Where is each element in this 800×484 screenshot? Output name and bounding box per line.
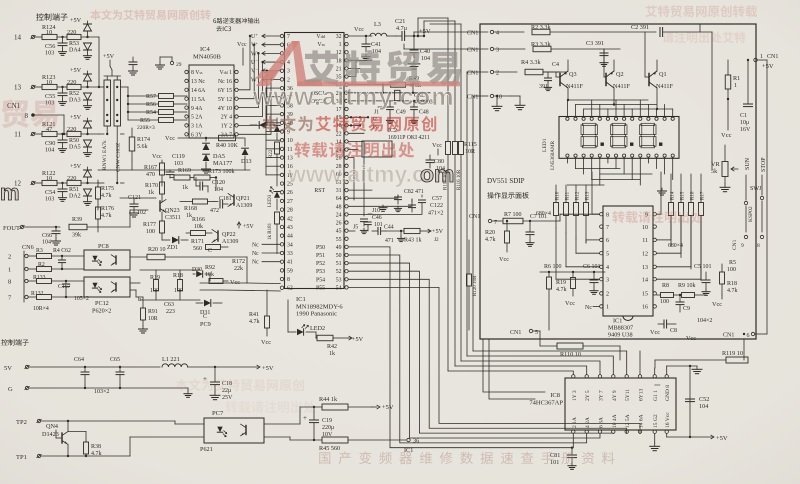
svg-text:14: 14 <box>14 34 22 42</box>
resistor R1 1 <box>725 60 740 130</box>
svg-text:R174: R174 <box>137 137 150 143</box>
svg-text:R7 100: R7 100 <box>504 212 522 218</box>
svg-text:8: 8 <box>757 243 760 249</box>
resistor R22 <box>269 142 280 170</box>
capacitor C6 101 <box>583 264 601 294</box>
wires R10-13 to MB88307 left pins <box>556 228 600 279</box>
svg-text:R42: R42 <box>327 344 337 350</box>
IC U-IC1 MN18982MDY-6 (64pin) <box>280 33 348 318</box>
wire column x277 <box>276 170 278 186</box>
svg-text:R18: R18 <box>727 281 737 287</box>
resistor R56 <box>128 102 187 109</box>
svg-text:R52: R52 <box>69 91 79 97</box>
capacitor C119 103 <box>166 154 185 178</box>
capacitor C9 <box>676 294 690 312</box>
capacitor C19 220u 10V <box>303 406 334 441</box>
svg-text:4.7k: 4.7k <box>556 287 567 293</box>
connector CN1 pin 4 <box>414 30 524 36</box>
svg-text:1Y 2: 1Y 2 <box>221 124 232 130</box>
svg-text:223: 223 <box>166 309 175 315</box>
svg-text:D13: D13 <box>241 158 252 165</box>
svg-text:P51: P51 <box>316 253 325 259</box>
svg-text:471×2: 471×2 <box>428 211 443 217</box>
resistor R15 680 <box>679 174 686 258</box>
label Vcc R20 <box>499 256 509 263</box>
resistor R7 100 <box>503 212 600 224</box>
svg-text:31: 31 <box>336 188 342 194</box>
svg-text:CN1: CN1 <box>723 333 734 339</box>
svg-text:32: 32 <box>336 34 342 40</box>
svg-text:1: 1 <box>8 267 11 274</box>
svg-text:18: 18 <box>336 58 342 64</box>
svg-text:49: 49 <box>336 245 342 251</box>
svg-text:N411F: N411F <box>656 83 674 90</box>
label 680x4 left <box>536 211 551 217</box>
wire +5V to network columns <box>103 53 121 80</box>
switch SUN <box>744 157 751 232</box>
svg-text:29: 29 <box>176 62 182 68</box>
resistor R12 680 <box>574 185 581 238</box>
resistor R169 1k <box>170 168 194 191</box>
svg-text:+5V: +5V <box>716 435 728 442</box>
svg-text:C4: C4 <box>552 62 559 68</box>
svg-text:C21: C21 <box>395 18 405 25</box>
svg-text:R51: R51 <box>69 187 79 193</box>
svg-text:4Y 9: 4Y 9 <box>612 390 618 401</box>
svg-text:Vcc: Vcc <box>165 135 175 142</box>
display LED1 LN5360AMR 7-segment x3 <box>542 117 679 171</box>
svg-text:MA177: MA177 <box>213 160 232 167</box>
svg-text:52: 52 <box>336 269 342 275</box>
wire right pin stubs of IC1 <box>349 60 423 214</box>
svg-text:+5V: +5V <box>70 17 82 24</box>
svg-text:R54: R54 <box>146 110 156 116</box>
svg-text:R167: R167 <box>144 165 157 171</box>
svg-text:Vcc: Vcc <box>650 329 660 336</box>
label C QP22 <box>208 248 212 254</box>
resistor R121 47 <box>42 121 67 137</box>
svg-text:1Y 3: 1Y 3 <box>572 390 578 401</box>
jumper J1 <box>374 107 382 116</box>
svg-text:6: 6 <box>747 333 750 339</box>
wires MB88307 pins 8 and 9 upward <box>592 172 661 214</box>
resistor R168 1k <box>180 199 214 219</box>
watermark ghost www.aitmy.com <box>287 161 455 187</box>
capacitor C122 471x2 <box>409 199 444 217</box>
svg-text:Vcc: Vcc <box>230 279 240 286</box>
resistor R13 680 <box>584 185 591 243</box>
resistor R2 3.3k <box>531 24 656 35</box>
jumper J2 J3 rows <box>349 116 378 130</box>
svg-text:10 4A: 10 4A <box>612 414 618 428</box>
capacitor C54 103 <box>45 183 67 203</box>
svg-text:Q2: Q2 <box>616 71 624 78</box>
resistor R167 470 <box>144 160 165 186</box>
inductor L3 <box>370 21 396 36</box>
resistor R4 3.3k <box>521 59 560 75</box>
svg-text:P621: P621 <box>200 446 213 453</box>
label control-terminals 控制端子 <box>36 13 67 20</box>
capacitor C81 101 <box>550 447 577 470</box>
svg-text:DV551 SDIP: DV551 SDIP <box>487 177 525 185</box>
svg-text:P52: P52 <box>316 261 325 267</box>
svg-text:DA4: DA4 <box>69 48 81 54</box>
svg-text:Vcc: Vcc <box>499 256 509 263</box>
resistor R18b 100 <box>140 270 200 300</box>
svg-text:J10: J10 <box>372 208 380 214</box>
transistor Q1 N411F <box>645 32 674 109</box>
resistor R55 220R×3 <box>128 118 187 132</box>
label control-terminals2 控制端子 <box>1 339 29 346</box>
svg-text:9: 9 <box>287 129 290 135</box>
svg-text:SUN: SUN <box>745 157 751 170</box>
capacitor C56 103 <box>45 37 67 57</box>
svg-text:560: 560 <box>193 246 202 252</box>
svg-text:+5V: +5V <box>70 163 82 170</box>
transistor Q2 N411F <box>604 49 631 105</box>
jumper J5 <box>349 225 358 232</box>
svg-text:100: 100 <box>146 229 155 235</box>
svg-text:15 G2: 15 G2 <box>653 414 659 428</box>
svg-text:R1: R1 <box>733 75 740 82</box>
svg-text:C3 391: C3 391 <box>586 40 604 47</box>
labels CN6 resistors <box>31 248 49 312</box>
svg-text:12: 12 <box>642 251 648 257</box>
svg-text:5V: 5V <box>4 365 12 372</box>
svg-text:4Y 10: 4Y 10 <box>218 106 232 112</box>
svg-text:472: 472 <box>210 208 219 214</box>
label Vcc left <box>242 64 244 66</box>
svg-text:C7 101: C7 101 <box>530 214 547 220</box>
svg-text:R132: R132 <box>31 291 44 297</box>
watermark faint left edge <box>0 99 58 205</box>
svg-text:12 5A: 12 5A <box>625 414 631 428</box>
wire tops of 10R bus <box>417 18 461 37</box>
resistor R6 100 <box>544 264 562 330</box>
svg-text:R166: R166 <box>192 217 205 223</box>
svg-text:102: 102 <box>137 210 146 216</box>
svg-text:R53: R53 <box>69 41 79 47</box>
svg-text:G1 1: G1 1 <box>653 390 659 401</box>
svg-text:R41: R41 <box>249 312 259 318</box>
label 680x4 right <box>668 243 683 249</box>
capacitor network CNW C103Z <box>114 80 122 184</box>
resistor R57 <box>128 94 187 101</box>
capacitor C167 105x2 <box>58 280 89 302</box>
svg-text:QP21: QP21 <box>236 196 250 202</box>
svg-text:CN1: CN1 <box>467 31 478 37</box>
resistor R117 10R <box>444 18 451 371</box>
switch KSP02 <box>748 206 754 222</box>
svg-text:R172: R172 <box>232 259 245 265</box>
inductor L1 221 <box>162 356 258 367</box>
ground middle top <box>362 54 420 69</box>
svg-text:+5V: +5V <box>419 28 431 35</box>
svg-text:+5V: +5V <box>243 224 254 230</box>
svg-text:4.7k: 4.7k <box>101 193 112 199</box>
connector CN1 pin 5 <box>510 329 540 346</box>
svg-text:14: 14 <box>642 277 648 283</box>
svg-text:103: 103 <box>174 161 183 167</box>
resistor R49 470k <box>349 76 422 93</box>
watermark bottom caption red <box>319 452 614 465</box>
svg-text:C2 391: C2 391 <box>631 24 649 31</box>
svg-text:R9 10k: R9 10k <box>678 283 696 289</box>
wires R14-17 to MB88307 right pins <box>657 216 702 280</box>
svg-text:3Y 7: 3Y 7 <box>599 390 605 401</box>
svg-text:MB88307: MB88307 <box>608 325 633 332</box>
svg-text:R57: R57 <box>146 94 156 100</box>
wire block outputs to network columns <box>98 37 129 183</box>
transistor QP22 A1309 <box>212 230 238 246</box>
resistor R10 680 <box>554 185 561 228</box>
wire vertical buses left <box>63 115 65 135</box>
svg-text:220R×3: 220R×3 <box>137 125 155 131</box>
svg-text:103×2: 103×2 <box>94 389 109 395</box>
svg-text:R168: R168 <box>184 206 197 212</box>
wire Vcc rail <box>98 135 250 170</box>
svg-text:104: 104 <box>699 403 708 410</box>
svg-text:b: b <box>138 297 141 303</box>
svg-text:4.7k: 4.7k <box>101 213 112 219</box>
resistor R11 680 <box>564 185 571 233</box>
svg-text:LED3: LED3 <box>268 194 273 207</box>
svg-text:9409 U38: 9409 U38 <box>608 332 633 339</box>
svg-text:R18: R18 <box>173 273 183 279</box>
svg-text:14 6A: 14 6A <box>639 414 645 428</box>
svg-text:Q1: Q1 <box>659 71 667 78</box>
ground GND8 <box>667 366 702 375</box>
resistor R115 10R <box>459 24 477 361</box>
svg-text:R22: R22 <box>269 149 274 158</box>
svg-text:R43 1k: R43 1k <box>404 238 422 244</box>
diode DA2 to ground <box>83 189 91 205</box>
diode DA5 to +5V <box>70 114 92 135</box>
label +5V PC7 <box>372 404 394 411</box>
capacitor C62 <box>53 248 71 270</box>
svg-text:C120: C120 <box>212 180 225 186</box>
svg-text:1: 1 <box>606 305 609 311</box>
svg-text:KSP02: KSP02 <box>748 206 754 222</box>
resistor R19a 4.7k <box>556 272 576 307</box>
svg-text:R173 100k: R173 100k <box>208 169 235 175</box>
resistor R54 <box>128 110 187 117</box>
resistor network RNW1 EA7k <box>102 80 111 170</box>
svg-text:C19: C19 <box>322 418 332 424</box>
svg-text:26: 26 <box>287 190 293 196</box>
svg-text:Vcc: Vcc <box>432 142 442 149</box>
svg-text:8: 8 <box>287 277 290 283</box>
svg-text:R2 3.3k: R2 3.3k <box>531 24 552 31</box>
svg-text:5: 5 <box>606 251 609 257</box>
wire CN1-6 area <box>723 60 767 339</box>
svg-text:IC1: IC1 <box>613 318 622 325</box>
resistor R176 4.7k <box>96 206 115 232</box>
svg-text:QN4: QN4 <box>46 423 58 430</box>
svg-text:13: 13 <box>14 84 22 92</box>
IC U-IC8 74HC367AP <box>529 375 676 434</box>
svg-text:+5V: +5V <box>70 67 82 74</box>
svg-text:R55: R55 <box>140 118 150 124</box>
label +5V J2 <box>428 228 444 243</box>
wire bundle bus verticals to IC8 top pins <box>448 351 627 375</box>
svg-text:VR: VR <box>711 161 720 168</box>
resistor R170 1k <box>145 182 165 202</box>
svg-text:Vcc: Vcc <box>354 26 364 33</box>
svg-text:R20: R20 <box>485 230 495 236</box>
transistor QN23 C3511 <box>120 198 181 221</box>
capacitor C7 101 <box>526 214 547 246</box>
svg-text:TP1: TP1 <box>16 454 27 461</box>
svg-text:59: 59 <box>287 268 293 274</box>
svg-text:8: 8 <box>606 212 609 218</box>
label 104x2 <box>697 318 712 324</box>
svg-text:1k: 1k <box>182 185 188 191</box>
resistor R38 4.7k <box>68 432 102 458</box>
svg-text:100: 100 <box>727 267 736 273</box>
svg-text:2Y 5: 2Y 5 <box>585 390 591 401</box>
svg-text:13: 13 <box>642 265 648 271</box>
svg-text:P53: P53 <box>316 269 325 275</box>
label 6-channel inverter pulse output header <box>213 18 259 32</box>
svg-text:R177: R177 <box>143 222 156 228</box>
svg-text:C52: C52 <box>699 396 709 403</box>
svg-text:21: 21 <box>336 66 342 72</box>
svg-text:R171: R171 <box>191 239 204 245</box>
svg-text:Vcc: Vcc <box>712 301 722 308</box>
resistor R175 4.7k <box>96 180 115 210</box>
resistor R123 10 <box>42 74 67 90</box>
svg-text:16911P OKI 4211: 16911P OKI 4211 <box>388 135 430 141</box>
svg-text:C1: C1 <box>740 113 747 119</box>
svg-text:CN1: CN1 <box>469 214 480 220</box>
svg-text:QN23: QN23 <box>165 208 180 214</box>
svg-text:R6 100: R6 100 <box>544 264 562 270</box>
output arrows U+ V+ W+ U- V- W- <box>251 32 280 83</box>
capacitor C49 <box>387 101 406 116</box>
watermark faint rows bottom-left <box>175 379 315 414</box>
svg-text:44: 44 <box>287 234 293 240</box>
svg-text:R8: R8 <box>662 283 669 289</box>
svg-text:51: 51 <box>336 261 342 267</box>
svg-text:101: 101 <box>550 459 559 466</box>
ground CN1-10 <box>473 95 525 351</box>
svg-text:RST: RST <box>314 188 325 194</box>
ground mid cluster <box>360 205 401 234</box>
svg-text:100: 100 <box>660 299 669 305</box>
resistor R172 22k <box>232 259 245 272</box>
label +5V LED2 <box>348 336 364 343</box>
capacitor C64 <box>74 357 89 385</box>
svg-text:+5V: +5V <box>70 114 82 121</box>
svg-text:41: 41 <box>287 260 293 266</box>
resistor R181 1k <box>268 212 280 248</box>
svg-text:CNW C103Z: CNW C103Z <box>116 142 122 172</box>
svg-text:www.aitmy.com: www.aitmy.com <box>252 83 455 111</box>
svg-text:+5V: +5V <box>352 336 364 343</box>
svg-text:DA5: DA5 <box>213 153 225 160</box>
label Vcc VR <box>721 132 732 139</box>
svg-text:104: 104 <box>214 187 223 193</box>
svg-text:15: 15 <box>642 292 648 298</box>
svg-text:R2: R2 <box>38 262 45 268</box>
svg-text:+: + <box>303 414 307 422</box>
watermark www.aitmy.com embossed <box>252 83 455 111</box>
svg-text:R4 C62: R4 C62 <box>53 248 71 254</box>
svg-text:+5V: +5V <box>762 63 774 70</box>
svg-text:C3511: C3511 <box>165 215 181 221</box>
wires oscillator area <box>386 114 417 124</box>
svg-text:R3 3.3k: R3 3.3k <box>531 41 552 48</box>
svg-text:R120 10R: R120 10R <box>473 275 478 296</box>
watermark faint top-right <box>645 5 757 43</box>
svg-text:R56: R56 <box>146 102 156 108</box>
resistor R43 1k <box>386 228 429 243</box>
IC U-IC1b MB88307 9409 U38 <box>600 206 657 339</box>
svg-text:6: 6 <box>606 238 609 244</box>
svg-text:R39: R39 <box>72 217 82 223</box>
svg-text:4.7μ: 4.7μ <box>396 25 408 32</box>
resistor R166 10k <box>186 217 212 236</box>
resistor R40 10K <box>216 135 244 149</box>
watermark logo A (red) <box>256 41 322 86</box>
diode DA5 to ground <box>83 140 91 156</box>
svg-text:TP2: TP2 <box>16 419 27 426</box>
resistor R16 680 <box>689 174 696 269</box>
switch STOP <box>750 157 767 232</box>
svg-text:220μ: 220μ <box>322 425 334 431</box>
terminal 12 <box>14 180 42 188</box>
svg-text:2 1A: 2 1A <box>572 417 578 428</box>
capacitor C63 223 <box>164 302 175 315</box>
svg-text:m: m <box>0 180 20 205</box>
svg-text:48: 48 <box>336 204 342 210</box>
resistor R39 39k <box>69 210 148 239</box>
svg-text:34: 34 <box>287 242 293 248</box>
watermark red underline bar <box>297 82 460 87</box>
svg-text:5Y11: 5Y11 <box>625 389 631 401</box>
svg-text:22: 22 <box>336 131 342 137</box>
svg-text:Vcc: Vcc <box>237 42 247 48</box>
resonator CSL 4D8063 <box>349 90 433 105</box>
svg-text:CN1: CN1 <box>510 330 521 336</box>
diode D30 <box>192 267 210 277</box>
resistor R20 4.7k <box>485 220 510 252</box>
terminal 5V <box>4 365 160 372</box>
diode DA4 to +5V <box>70 17 92 38</box>
svg-text:R19: R19 <box>556 280 566 286</box>
svg-text:1990 Panasonic: 1990 Panasonic <box>296 311 337 318</box>
svg-text:Nc: Nc <box>252 242 259 248</box>
diode DA2 to +5V <box>70 163 92 184</box>
svg-text:Q3: Q3 <box>569 71 577 78</box>
svg-text:28: 28 <box>287 208 293 214</box>
svg-text:+5V: +5V <box>382 404 394 411</box>
svg-text:PC7: PC7 <box>212 410 224 417</box>
svg-text:Vcc: Vcc <box>721 132 732 139</box>
jumper J10 <box>368 208 380 214</box>
capacitor C41 104 <box>362 35 381 55</box>
svg-text:C5 101: C5 101 <box>694 264 712 270</box>
svg-text:10R: 10R <box>148 316 158 322</box>
panel box DV551 SDIP <box>480 24 756 339</box>
resistor R124 10 <box>42 24 67 40</box>
svg-text:LED1: LED1 <box>542 138 548 152</box>
wires IC4 right pins to inverter rows <box>239 35 273 135</box>
connector CN1 pin 3 <box>404 44 525 54</box>
terminal FOUT <box>3 225 60 232</box>
resistor 220 220 <box>67 79 99 104</box>
